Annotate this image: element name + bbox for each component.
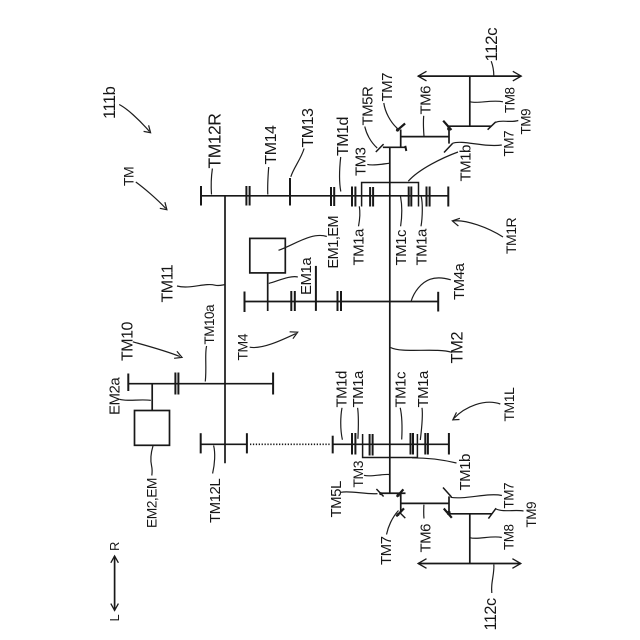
leader TM1a top1 <box>359 206 360 226</box>
leader TM12L <box>213 446 215 474</box>
leader TM1c top <box>401 196 402 226</box>
svg-text:112c: 112c <box>482 598 500 630</box>
leader TM1c bottom <box>400 408 402 440</box>
svg-text:L: L <box>107 615 122 622</box>
gear pair TM1d bottom <box>351 433 353 455</box>
svg-text:TM1a: TM1a <box>351 228 368 266</box>
bevel cross line C bottom <box>381 492 406 494</box>
shaft end cap left (top shaft) <box>200 186 202 206</box>
junction dot d1 bottom <box>379 492 382 495</box>
arrow TM4 <box>250 334 296 348</box>
svg-text:TM1d: TM1d <box>334 371 351 408</box>
svg-text:TM3: TM3 <box>353 147 370 176</box>
gear pair TM14 <box>330 187 332 206</box>
leader TM10a <box>205 346 206 382</box>
svg-text:TM7: TM7 <box>379 73 396 102</box>
arrow TM1L <box>454 402 501 418</box>
motor EM2 box <box>135 411 170 446</box>
leader TM1b top <box>408 152 458 181</box>
leader TM3 bottom <box>364 474 389 476</box>
gear TM13 (tall tick) <box>289 178 291 206</box>
leader TM6 top <box>422 116 425 137</box>
shaft TM3 top main (counter shaft R) <box>201 195 448 197</box>
motor EM1 box <box>250 238 285 273</box>
leader TM12R <box>211 169 212 195</box>
svg-text:TM7: TM7 <box>378 536 395 565</box>
svg-text:TM11: TM11 <box>160 264 177 302</box>
bevel vertical TM5R <box>400 130 402 148</box>
svg-text:TM1c: TM1c <box>393 371 410 408</box>
end cap left (TM10) <box>127 374 129 392</box>
shaft end cap right (top shaft) <box>447 187 449 207</box>
gear pair TM4a <box>337 291 339 311</box>
gear pair TM10a <box>174 373 176 395</box>
shaft TM2 (long vertical through clutches) <box>389 147 391 493</box>
svg-text:EM1,EM: EM1,EM <box>326 216 342 269</box>
svg-text:TM14: TM14 <box>263 125 280 165</box>
gear pair TM1c top <box>408 187 410 207</box>
bevel tick d2 bottom (bold) <box>397 489 404 496</box>
leader EM2,EM <box>151 446 153 476</box>
leader TM1a top2 <box>421 196 422 226</box>
svg-text:TM: TM <box>121 167 137 186</box>
end cap right (TM10) <box>272 373 274 395</box>
svg-text:TM9: TM9 <box>524 502 539 528</box>
svg-text:TM4: TM4 <box>235 333 251 360</box>
leader TM1a bottom1 <box>357 408 360 439</box>
leader TM11 <box>177 285 225 287</box>
bevel tick d5 bottom <box>443 488 452 498</box>
gear pair TM1a top-right <box>426 187 428 207</box>
leader TM6 bottom <box>423 505 425 519</box>
svg-text:TM1c: TM1c <box>393 229 410 266</box>
dotted axis line <box>250 443 331 445</box>
junction dot d3 <box>447 127 451 131</box>
arrow TM1R <box>454 221 504 237</box>
svg-text:111b: 111b <box>101 86 119 119</box>
svg-text:TM6: TM6 <box>418 524 435 553</box>
bevel vertical right bottom <box>448 496 450 514</box>
end cap left (bottom shaft) <box>332 436 334 454</box>
leader TM9 top <box>496 121 519 123</box>
leader TM1b bottom <box>412 458 457 463</box>
gear pair TM1a bottom-left <box>369 434 371 456</box>
shaft TM8 top (line A) <box>447 125 492 127</box>
bevel tick small below <box>400 513 405 518</box>
leader TM5R <box>365 127 377 149</box>
junction dot d2 <box>396 128 399 131</box>
svg-text:TM5R: TM5R <box>360 86 377 126</box>
bevel tick d3 top (bold) <box>443 121 451 130</box>
junction dot d3 bottom <box>447 511 450 514</box>
bevel cross line C top <box>383 146 406 148</box>
leader TM1d bottom <box>341 408 343 440</box>
leader TM5L <box>341 492 378 494</box>
leader TM7 top-left <box>384 103 398 129</box>
arrow TM10 <box>133 342 180 357</box>
svg-text:TM8: TM8 <box>503 88 518 114</box>
axle arrow 112c bottom <box>418 563 521 565</box>
junction tick at C-vertical top <box>405 146 406 151</box>
gear pair TM1a bottom-right <box>424 433 426 455</box>
bevel tick d4 bottom <box>488 508 496 518</box>
clutch housing rect TM1b bottom <box>363 434 418 458</box>
bevel tick d3 bottom (bold) <box>444 509 452 518</box>
leader TM7 bottom-left <box>387 511 399 535</box>
svg-text:EM2,EM: EM2,EM <box>145 478 160 528</box>
bevel tick d1 top <box>376 144 384 152</box>
motor EM2 output link <box>151 384 153 411</box>
svg-text:TM12L: TM12L <box>207 479 224 523</box>
svg-text:TM1a: TM1a <box>414 228 431 266</box>
bevel vertical TM5L <box>400 493 402 513</box>
leader EM1,EM <box>279 235 327 250</box>
svg-text:TM4a: TM4a <box>451 263 468 301</box>
junction dot TM5L bottom <box>396 513 399 516</box>
bevel tick d4 top <box>488 122 496 130</box>
svg-text:TM6: TM6 <box>418 86 435 115</box>
svg-text:TM8: TM8 <box>502 525 517 551</box>
shaft TM8 bottom (line A) <box>447 513 492 515</box>
svg-text:TM7: TM7 <box>502 483 517 509</box>
gear pair TM1d top <box>351 187 353 207</box>
leader TM7 bottom-right <box>451 495 502 498</box>
leader TM4a <box>411 278 451 301</box>
svg-text:TM9: TM9 <box>519 109 534 135</box>
svg-text:TM1a: TM1a <box>415 370 432 408</box>
leader TM14 <box>268 167 269 195</box>
L-R direction arrow <box>114 556 116 610</box>
junction dot d2 bottom <box>397 494 400 497</box>
svg-text:EM1a: EM1a <box>298 257 315 295</box>
gear pair TM1c bottom <box>410 433 412 455</box>
shaft bottom main (counter shaft L) <box>333 443 449 445</box>
leader TM3 top <box>367 163 389 165</box>
svg-text:TM13: TM13 <box>300 108 317 148</box>
leader TM1d top <box>340 157 341 192</box>
leader TM8 top <box>470 101 503 102</box>
svg-text:TM1L: TM1L <box>501 387 517 422</box>
motor EM1 output link <box>267 273 269 311</box>
axle shaft bottom right <box>469 514 471 564</box>
svg-text:TM1d: TM1d <box>335 117 352 156</box>
gear pair TM1a top-left <box>369 187 371 207</box>
bevel vertical right top <box>448 126 450 144</box>
svg-text:TM10: TM10 <box>120 322 137 362</box>
svg-text:TM2: TM2 <box>449 332 467 364</box>
end cap left (EM1a shaft) <box>244 292 246 313</box>
axle shaft top right <box>469 76 471 126</box>
bevel tick d2 top (bold) <box>396 124 405 132</box>
shaft TM6 bottom (line B) <box>401 502 449 504</box>
svg-text:TM1a: TM1a <box>350 370 367 408</box>
svg-text:EM2a: EM2a <box>107 377 124 415</box>
end cap right (bottom shaft) <box>448 433 450 455</box>
shaft EM1a / TM4a (middle) <box>245 301 439 303</box>
gear pair EM1a <box>290 291 292 311</box>
svg-text:TM3: TM3 <box>350 460 366 487</box>
leader TM2 <box>391 348 453 353</box>
svg-text:TM5L: TM5L <box>328 481 345 518</box>
svg-text:TM1R: TM1R <box>503 218 519 255</box>
svg-text:TM12R: TM12R <box>205 114 225 169</box>
leader EM2a <box>120 399 151 400</box>
svg-text:TM1b: TM1b <box>457 454 474 491</box>
leader TM7 top-right <box>452 142 502 145</box>
axle arrow 112c top <box>418 75 521 77</box>
end cap left (TM12L) <box>200 433 202 453</box>
leader 112c bottom <box>492 565 494 594</box>
gear pair TM12R <box>245 186 247 206</box>
leader TM8 bottom <box>470 537 502 538</box>
svg-text:112c: 112c <box>482 27 501 62</box>
arrow TM <box>136 182 166 209</box>
clutch housing rect TM1b top <box>362 183 419 207</box>
svg-text:TM7: TM7 <box>502 131 517 157</box>
gear tall tick on EM1a shaft <box>315 266 317 311</box>
shaft TM12L <box>201 443 247 445</box>
leader EM1a <box>269 277 298 284</box>
svg-text:TM10a: TM10a <box>202 304 217 345</box>
end cap right (TM12L) <box>246 433 248 453</box>
bevel tick d5 top <box>444 144 453 153</box>
bevel tick at TM5L bottom end (bold) <box>396 508 404 516</box>
end cap right (TM4a shaft) <box>437 292 439 312</box>
svg-text:TM1b: TM1b <box>458 145 475 182</box>
shaft TM6 top (line B) <box>401 136 449 138</box>
leader TM13 <box>291 149 304 177</box>
leader 112c top <box>491 61 494 76</box>
arrow 111b <box>119 105 149 132</box>
leader TM1a bottom2 <box>420 408 422 440</box>
bevel tick d1 bottom <box>376 489 383 497</box>
shaft TM11 main (long vertical) <box>224 196 226 464</box>
shaft TM10 <box>128 383 273 385</box>
svg-text:R: R <box>107 542 122 551</box>
leader TM9 bottom <box>496 509 524 511</box>
